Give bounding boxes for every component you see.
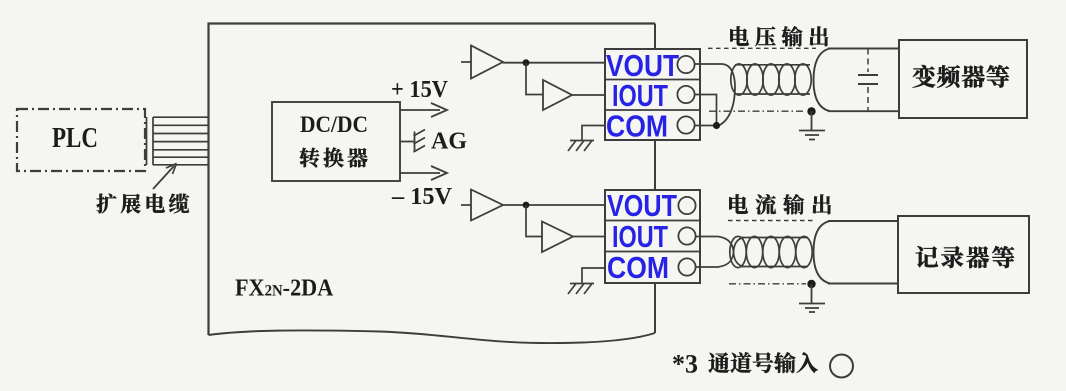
twisted pair ch2 xyxy=(730,236,812,267)
junction node ch1 xyxy=(523,59,530,66)
-15V supply arrow xyxy=(400,172,440,174)
COM1 ground wire xyxy=(582,126,605,141)
shield ground node ch2 xyxy=(807,280,815,288)
label 转换器 xyxy=(300,148,320,168)
cable jacket ch2 xyxy=(814,221,899,284)
junction node COM1/IOUT1 xyxy=(713,122,720,129)
svg-text:COM: COM xyxy=(606,109,668,144)
label 电压输出 xyxy=(730,26,749,46)
terminal block TB2 xyxy=(605,190,700,283)
svg-text:DC/DC: DC/DC xyxy=(300,112,368,137)
wire A2 out to IOUT1 xyxy=(572,94,605,96)
label 电流输出 xyxy=(729,194,748,214)
shield ground node ch1 xyxy=(807,107,815,115)
wire branch to A2 xyxy=(526,63,543,95)
terminal screws TB2 xyxy=(678,197,695,214)
wire COM1 to junction xyxy=(695,125,717,127)
DC/DC converter box U1 xyxy=(272,102,400,181)
cable jacket ch1 xyxy=(814,49,900,112)
wire IOUT2 to twisted pair (cross) xyxy=(696,237,745,267)
wire IOUT1 down to junction xyxy=(695,95,717,126)
module outline FX2N-2DA box xyxy=(209,24,656,336)
AG stub wire with hatch xyxy=(400,141,414,143)
label 记录器等 xyxy=(916,246,938,267)
svg-text:+ 15V: + 15V xyxy=(391,77,449,103)
label 变频器等 xyxy=(913,65,936,88)
ground symbol ch1 xyxy=(568,141,594,152)
terminal block TB1 xyxy=(605,49,700,140)
shield dashed outline ch1 xyxy=(708,47,816,49)
svg-text:VOUT: VOUT xyxy=(607,188,677,223)
wire right-edge between terminal blocks xyxy=(654,140,656,190)
ground symbol ch2 xyxy=(568,284,594,295)
wire A4 out to IOUT2 xyxy=(573,236,605,238)
shield dashed outline ch2 xyxy=(728,220,816,222)
svg-text:COM: COM xyxy=(607,250,669,285)
svg-text:AG: AG xyxy=(431,129,467,155)
svg-text:IOUT: IOUT xyxy=(612,219,668,254)
COM2 ground wire xyxy=(582,268,605,283)
wire right-edge below terminal block 2 xyxy=(654,283,656,333)
+15V supply arrow xyxy=(400,109,440,111)
op-amp buffer A4 xyxy=(542,222,573,253)
earth ground ch2 xyxy=(799,284,825,312)
expansion ribbon cable xyxy=(147,117,209,165)
wire COM2 to twisted pair (cross) xyxy=(696,238,745,268)
label 扩展电缆 xyxy=(97,194,117,214)
load box 记录器等 xyxy=(898,216,1029,293)
wire A3 out to VOUT2 xyxy=(503,204,605,206)
svg-text:PLC: PLC xyxy=(52,123,98,154)
junction node ch2 xyxy=(523,202,530,209)
wire A1 out to VOUT1 xyxy=(503,62,605,64)
op-amp buffer A1 xyxy=(461,61,471,63)
twisted pair ch1 xyxy=(731,64,811,95)
arrow to ribbon cable xyxy=(153,166,174,189)
load box 变频器等 xyxy=(899,40,1027,118)
label 通道号输入 xyxy=(709,352,730,372)
op-amp buffer A2 xyxy=(543,80,572,110)
wire branch to A4 xyxy=(526,205,542,237)
label FX2N-2DA xyxy=(235,274,334,301)
svg-text:FX2N-2DA: FX2N-2DA xyxy=(235,274,334,301)
capacitor C1 (dashed) xyxy=(867,49,869,73)
terminal screws TB1 xyxy=(677,56,694,73)
wire VOUT1 to twisted pair (half twist) xyxy=(695,64,736,126)
op-amp buffer A3 xyxy=(461,204,471,206)
wavy bottom edge of module xyxy=(209,330,656,343)
PLC box xyxy=(17,109,145,171)
svg-text:*3: *3 xyxy=(672,350,698,379)
footnote circle xyxy=(830,355,853,378)
earth ground ch1 xyxy=(799,111,825,140)
svg-text:– 15V: – 15V xyxy=(391,184,453,210)
